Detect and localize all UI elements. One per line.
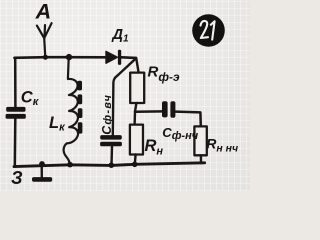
wire: left vertical branch lower (Ck to bottom bus) [14, 119, 17, 167]
wire: bottom horizontal bus [14, 163, 205, 167]
node: coil bottom junction dot [67, 162, 73, 168]
resistor R_n body [130, 125, 143, 155]
diode D1 [106, 51, 117, 63]
coil core (dashed line) [77, 81, 82, 134]
wire: diode node down to R_f-e [136, 58, 138, 73]
svg-text:Ск: Ск [21, 89, 40, 108]
svg-text:Lк: Lк [49, 114, 66, 134]
node: ground junction dot [39, 161, 45, 167]
badge 21 [192, 14, 225, 47]
wire: R_n-nch bottom lead [200, 155, 203, 163]
ground symbol [41, 165, 43, 178]
svg-text:Rф-э: Rф-э [148, 63, 180, 84]
node: coil branch junction dot [66, 54, 72, 60]
svg-text:Rн: Rн [145, 137, 164, 158]
wire: R_f-e bottom lead to T node [135, 103, 137, 125]
wire: mid horizontal to C_f-nch [135, 110, 162, 113]
wire: diagonal from diode node to C_f-vch branch [113, 59, 136, 136]
antenna [37, 23, 52, 57]
wire: left vertical branch upper (to Ck) [14, 58, 17, 107]
node: C_f-vch bottom junction dot [109, 162, 115, 168]
svg-text:З: З [11, 168, 23, 188]
wire: C_f-vch bottom lead [110, 146, 113, 165]
wire: R_n bottom lead [134, 155, 137, 165]
wire: top horizontal bus from left corner to diode node [15, 56, 137, 59]
capacitor C_f-vch plates [100, 135, 122, 146]
svg-text:Сф-вч: Сф-вч [100, 94, 114, 135]
svg-text:A: A [35, 0, 52, 23]
capacitor C_f-nch plates [162, 101, 175, 118]
node: antenna junction dot [43, 55, 48, 60]
svg-text:Д1: Д1 [111, 27, 129, 45]
node: R_n bottom junction dot [132, 162, 138, 168]
resistor R_f-e body [130, 73, 144, 103]
capacitor C_k plates [6, 107, 26, 119]
svg-text:Rн нч: Rн нч [206, 136, 238, 155]
resistor R_n-nch body [194, 126, 206, 155]
wire: C_f-nch to R_n-nch corner [175, 112, 200, 127]
inductor L_k coil [64, 58, 78, 165]
